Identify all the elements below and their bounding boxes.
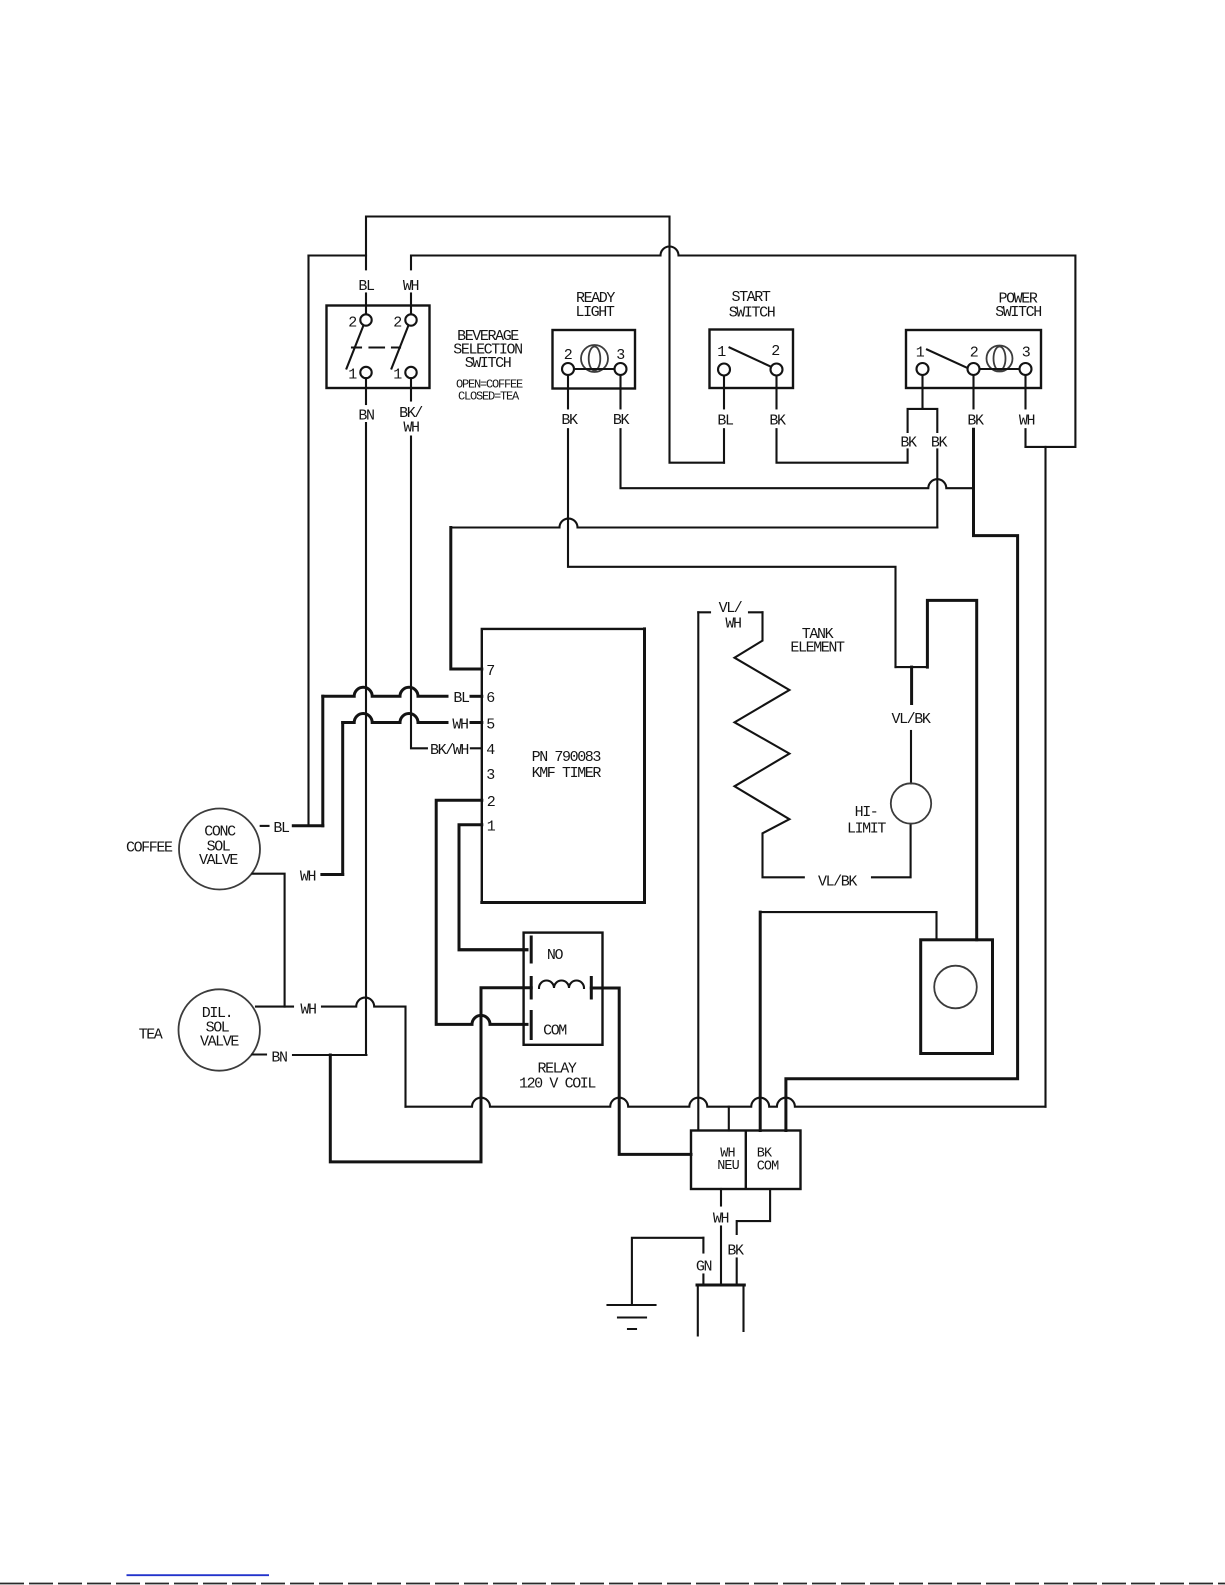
wire: VL/BK stub down from tee <box>910 667 913 703</box>
wire: BK lead below terminal block with jog <box>737 1189 770 1234</box>
svg-text:COM: COM <box>543 1022 567 1039</box>
svg-text:SWITCH: SWITCH <box>995 304 1041 321</box>
wire: BK COM feed to thermostat box <box>760 912 936 940</box>
wire: BK/WH from beverage switch terminal 1R <box>410 378 412 400</box>
wire: relay coil left lead down and around to BN row <box>330 988 531 1162</box>
wire: timer pin 6 BL row with hops <box>323 687 447 696</box>
svg-text:2: 2 <box>970 344 978 361</box>
svg-text:VALVE: VALVE <box>200 1033 239 1050</box>
svg-text:BL: BL <box>358 278 375 295</box>
wire: ready light terminal 3 BK down <box>619 375 621 408</box>
relay NO contact bar <box>530 937 533 962</box>
hi-limit thermostat circle <box>891 783 931 823</box>
beverage switch terminal 2 left <box>360 314 371 325</box>
svg-text:GN: GN <box>696 1258 712 1275</box>
svg-text:NEU: NEU <box>717 1159 739 1174</box>
wire: neutral bus with hops <box>406 1098 1046 1107</box>
thermostat circle <box>934 966 977 1009</box>
wire: ready light terminal 2 BK down <box>567 375 569 408</box>
svg-text:PN 790083: PN 790083 <box>532 749 602 766</box>
power switch terminal 1 <box>917 363 929 375</box>
beverage switch terminal 1 left <box>360 367 371 378</box>
beverage switch mechanical link (dashed) <box>352 346 400 348</box>
wire: tea valve BN lead <box>252 1053 266 1055</box>
svg-text:BK: BK <box>727 1242 744 1259</box>
plug: line cord connector <box>697 1284 744 1287</box>
wire: tee bar above hi-limit <box>896 666 928 668</box>
wire: neutral bus stub into WH NEU <box>728 1107 730 1131</box>
svg-text:LIMIT: LIMIT <box>847 820 886 837</box>
tea solenoid: DIL. SOL VALVE circle <box>179 989 260 1070</box>
wire: NO lead <box>459 948 527 951</box>
wire: GN to plug <box>702 1275 704 1286</box>
svg-text:COM: COM <box>757 1159 779 1174</box>
start switch blade <box>730 348 771 367</box>
svg-text:SWITCH: SWITCH <box>729 304 775 321</box>
wire: start switch terminal 2 BK down <box>775 376 777 409</box>
wire: start switch terminal 1 BL down <box>723 376 725 409</box>
svg-text:COFFEE: COFFEE <box>126 840 173 857</box>
svg-text:WH: WH <box>403 278 419 295</box>
tank element resistor zigzag <box>735 612 804 877</box>
wire: BL left branch at y=255 <box>309 254 367 256</box>
power switch terminal 2 <box>968 363 980 375</box>
wire: BN vertical down to tea valve BN row <box>365 423 367 1055</box>
wire: left vertical x=308.5 down to coffee valve BL row <box>307 256 309 826</box>
svg-text:2: 2 <box>393 314 401 331</box>
wire: stub to timer pin 4 <box>471 747 482 749</box>
wire: timer pin 5 WH row with hops <box>343 714 447 723</box>
svg-text:2: 2 <box>564 347 572 364</box>
decorative: bottom page edge dashed line <box>0 1583 1225 1585</box>
tank element: VL/WH label bracket <box>698 611 762 613</box>
wire: power switch terminal 1 split bar <box>908 409 938 432</box>
svg-text:VL/: VL/ <box>719 600 743 617</box>
beverage switch blade right pole <box>392 325 409 368</box>
wire: BK to hi-limit tee <box>568 429 896 667</box>
wire: BL row to pin-6 vertical <box>293 824 323 827</box>
wire: power switch terminal 2 to 3 <box>980 368 1020 370</box>
svg-text:TEA: TEA <box>139 1026 163 1043</box>
wire: BK jog to power switch terminal 1 branch <box>777 429 908 463</box>
svg-text:BK: BK <box>931 434 948 451</box>
start switch terminal 1 <box>718 364 730 376</box>
beverage switch blade left pole <box>347 325 364 368</box>
ready light lamp symbol <box>581 345 608 372</box>
svg-text:BL: BL <box>273 820 290 837</box>
beverage switch terminal 2 right <box>405 314 416 325</box>
power switch: box <box>906 330 1041 388</box>
wire: BK right branch down to pin7 bus <box>936 449 938 527</box>
svg-text:WH: WH <box>725 615 741 632</box>
beverage switch terminal 1 right <box>405 367 416 378</box>
wire: WH stub into beverage switch terminal 2R <box>410 294 412 316</box>
ground symbol <box>608 1305 656 1329</box>
terminal block: WH NEU / BK COM box <box>691 1131 801 1190</box>
wire: power switch terminal 3 WH down <box>1024 375 1026 408</box>
wire: tea valve WH lead <box>256 1006 293 1008</box>
svg-text:7: 7 <box>486 663 494 680</box>
svg-text:NO: NO <box>547 947 564 964</box>
wire: coffee valve WH lead and drop to tea valve <box>253 874 285 1007</box>
svg-text:BK/WH: BK/WH <box>430 742 468 759</box>
svg-text:VL/BK: VL/BK <box>818 873 857 890</box>
svg-text:BK: BK <box>900 434 917 451</box>
svg-text:WH: WH <box>713 1210 729 1227</box>
svg-text:LIGHT: LIGHT <box>575 304 614 321</box>
svg-text:BL: BL <box>453 690 470 707</box>
svg-text:2: 2 <box>348 314 356 331</box>
decorative: blue underline <box>127 1574 270 1576</box>
wire: BL top bus from beverage switch to start switch <box>366 217 724 463</box>
svg-text:WH: WH <box>452 716 468 733</box>
wire: WH stub to corner <box>1024 429 1026 447</box>
thermostat switch box <box>921 940 993 1054</box>
wire: VL/BK bottom lead to hi-limit <box>872 824 911 877</box>
svg-text:VL/BK: VL/BK <box>891 711 930 728</box>
wire: BL stub into beverage switch terminal 2L <box>365 294 367 316</box>
wire: WH to plug <box>720 1227 722 1286</box>
svg-text:WH: WH <box>300 868 316 885</box>
wire: coffee valve BL lead <box>261 825 269 827</box>
svg-text:SWITCH: SWITCH <box>465 355 511 372</box>
relay coil plates <box>531 978 591 999</box>
wire: power switch terminal 1 down <box>921 375 923 409</box>
svg-text:ELEMENT: ELEMENT <box>790 639 845 656</box>
svg-text:BK: BK <box>769 412 786 429</box>
wire: VL/BK to hi-limit top <box>910 731 912 783</box>
svg-text:WH: WH <box>1019 412 1035 429</box>
power switch terminal 3 <box>1020 363 1032 375</box>
svg-text:BK: BK <box>967 412 984 429</box>
wire: BN from beverage switch terminal 1L <box>365 378 367 404</box>
power switch lamp symbol <box>987 346 1013 372</box>
wire: GN lead to ground <box>632 1238 704 1305</box>
ready light terminal 3 <box>615 363 627 375</box>
svg-text:BL: BL <box>717 412 734 429</box>
wire: WH branch down to neutral bus <box>1044 447 1046 1107</box>
svg-text:BN: BN <box>358 407 374 424</box>
svg-text:BK: BK <box>613 412 630 429</box>
wire: power switch terminal 2 BK down <box>972 375 974 408</box>
wire: BN row <box>293 1054 366 1056</box>
svg-text:WH: WH <box>300 1001 316 1018</box>
start switch terminal 2 <box>771 364 783 376</box>
wire: BL to corner <box>723 429 725 463</box>
svg-text:VALVE: VALVE <box>199 852 238 869</box>
power switch blade <box>927 350 968 369</box>
wire: WH lead below terminal block <box>720 1189 722 1206</box>
wire: timer pin 1 to relay NO <box>459 825 527 950</box>
wire: stub to pin 6 <box>471 695 482 698</box>
wire: WH bus from beverage switch to power switch terminal 3 <box>411 247 1075 447</box>
wire: ready light terminal 2 to 3 <box>574 368 615 370</box>
svg-text:BK: BK <box>561 412 578 429</box>
svg-text:120 V COIL: 120 V COIL <box>519 1075 596 1092</box>
ready light terminal 2 <box>562 363 574 375</box>
wire: pin 5 WH vertical down to coffee valve WH row <box>341 723 344 875</box>
relay coil arcs <box>539 981 584 989</box>
wire: thick drop to BK COM terminal <box>759 912 762 1130</box>
wire: BK to plug <box>736 1259 738 1286</box>
wire: BK common run to BK COM terminal <box>786 429 1018 1130</box>
coffee solenoid: CONC SOL VALVE circle <box>179 809 260 890</box>
svg-text:HI-: HI- <box>855 804 878 821</box>
wire: GN stub <box>702 1238 704 1253</box>
timer U1: box PN 790083 KMF TIMER <box>482 629 645 903</box>
wire: pin 7 bus across (hop over ready-light BK) <box>451 519 938 528</box>
wire: timer pin 2 to relay COM (hop over coil wire) <box>436 800 527 1024</box>
wire: WH row to pin-5 vertical <box>322 873 343 876</box>
wire: pin 6 BL vertical down to coffee valve BL row <box>321 696 324 825</box>
svg-text:WH: WH <box>403 419 419 436</box>
svg-text:BN: BN <box>271 1049 287 1066</box>
ready light: box <box>553 330 636 389</box>
wire: branch to thermostat (n shape) <box>927 600 976 939</box>
wire: stub to pin 5 <box>471 721 482 724</box>
wire: BK/WH vertical down to timer pin 4 <box>411 437 427 749</box>
wire: pin 7 drop into timer <box>451 528 482 670</box>
svg-text:2: 2 <box>771 343 779 360</box>
wire: VL/WH vertical to WH NEU terminal <box>697 612 699 1130</box>
svg-text:2: 2 <box>487 794 495 811</box>
wire: tea WH row to neutral bus (hop over BN vertical) <box>322 998 406 1107</box>
beverage selection switch: box <box>327 306 430 389</box>
wire: BK to power switch terminal 2 net <box>621 429 974 488</box>
wire: relay coil right lead to WH NEU terminal <box>591 988 691 1154</box>
svg-text:START: START <box>731 289 770 306</box>
svg-text:CLOSED=TEA: CLOSED=TEA <box>458 389 520 403</box>
start switch: box <box>710 330 794 389</box>
svg-text:KMF TIMER: KMF TIMER <box>532 765 602 782</box>
relay COM contact bar <box>530 1012 533 1039</box>
relay K1: box <box>524 933 603 1045</box>
